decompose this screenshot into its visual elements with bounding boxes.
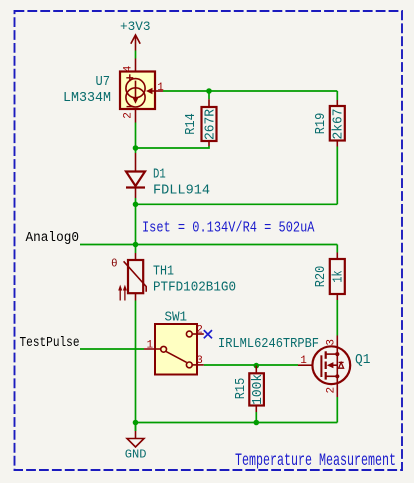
wire gate net	[204, 364, 298, 366]
junction	[206, 88, 212, 94]
wire GND stub	[135, 423, 137, 432]
wire U7 pin2 down	[135, 123, 137, 154]
svg-text:R14: R14	[184, 113, 199, 135]
wire TH1 down	[135, 301, 137, 432]
svg-text:LM334M: LM334M	[63, 91, 111, 106]
wire TestPulse	[80, 348, 144, 350]
svg-text:3: 3	[326, 339, 338, 346]
svg-text:3: 3	[196, 355, 203, 367]
wire R19 bottom	[336, 147, 338, 205]
wire top net	[163, 90, 337, 92]
svg-text:Q1: Q1	[355, 353, 370, 368]
svg-text:1: 1	[157, 82, 164, 94]
svg-text:D1: D1	[153, 168, 166, 183]
resistor R19	[330, 100, 345, 147]
pin 2 U7	[135, 109, 137, 123]
power +3V3	[131, 35, 140, 51]
svg-text:TestPulse: TestPulse	[20, 336, 80, 351]
switch SW1	[144, 324, 204, 375]
resistor R14	[202, 99, 217, 146]
current source U7	[120, 72, 155, 110]
wire Q1 source down	[336, 397, 338, 423]
resistor R20	[330, 253, 345, 301]
thermistor PTC arrows	[118, 285, 127, 301]
svg-text:FDLL914: FDLL914	[153, 184, 210, 199]
svg-text:SW1: SW1	[165, 311, 188, 326]
svg-text:U7: U7	[96, 75, 111, 90]
svg-text:R20: R20	[314, 266, 329, 288]
svg-text:+3V3: +3V3	[120, 19, 151, 34]
pin 4 U7	[135, 59, 137, 72]
resistor R15	[249, 366, 264, 412]
svg-text:Temperature Measurement: Temperature Measurement	[235, 451, 396, 471]
svg-text:1: 1	[146, 340, 153, 352]
wire	[135, 51, 137, 59]
wire mid net	[136, 203, 338, 205]
wire R15 bottom	[255, 412, 257, 423]
thermistor TH1	[124, 253, 147, 301]
svg-text:100k: 100k	[251, 374, 266, 405]
junction	[253, 420, 259, 426]
svg-text:IRLML6246TRPBF: IRLML6246TRPBF	[218, 337, 319, 352]
wire R19 top	[336, 91, 338, 100]
transistor Q1	[298, 336, 350, 398]
junction	[253, 363, 259, 369]
svg-text:R15: R15	[234, 378, 249, 400]
svg-text:θ: θ	[111, 259, 118, 271]
junction	[133, 420, 139, 426]
svg-text:267R: 267R	[203, 109, 218, 140]
svg-text:Analog0: Analog0	[26, 231, 80, 246]
junction	[133, 145, 139, 151]
wire bottom net	[136, 422, 338, 424]
svg-text:Iset = 0.134V/R4 = 502uA: Iset = 0.134V/R4 = 502uA	[142, 219, 315, 236]
wire D1 to Analog0	[135, 198, 137, 253]
junction	[133, 202, 139, 208]
wire R14 top	[208, 91, 210, 99]
wire Analog0	[80, 244, 337, 246]
svg-text:PTFD102B1G0: PTFD102B1G0	[153, 281, 236, 296]
svg-text:1k: 1k	[332, 270, 347, 282]
pin 1 U7	[146, 88, 163, 94]
svg-text:4: 4	[123, 65, 135, 72]
wire R20 top	[336, 245, 338, 253]
svg-text:1: 1	[300, 355, 307, 367]
svg-text:2k67: 2k67	[332, 109, 347, 140]
svg-text:2: 2	[123, 112, 135, 119]
junction	[133, 242, 139, 248]
ground	[127, 431, 144, 447]
svg-text:R19: R19	[314, 113, 329, 135]
svg-text:2: 2	[326, 387, 338, 394]
diode D1	[126, 153, 145, 198]
no-connect X	[204, 330, 212, 338]
wire to R14 bottom	[136, 146, 210, 148]
wire R20 to Q1	[336, 300, 338, 336]
svg-text:TH1: TH1	[153, 265, 174, 280]
svg-text:GND: GND	[125, 448, 147, 462]
svg-text:2: 2	[196, 324, 203, 336]
